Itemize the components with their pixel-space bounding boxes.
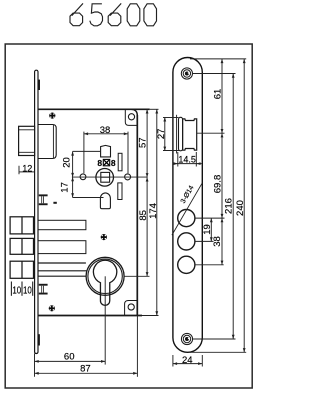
svg-text:10: 10 xyxy=(23,285,32,296)
svg-text:69.8: 69.8 xyxy=(212,175,223,194)
svg-text:27: 27 xyxy=(156,129,167,140)
svg-text:20: 20 xyxy=(61,157,72,168)
svg-text:24: 24 xyxy=(182,355,193,366)
svg-text:19: 19 xyxy=(202,224,213,235)
svg-text:10: 10 xyxy=(12,285,21,296)
svg-text:38: 38 xyxy=(100,125,111,136)
svg-text:38: 38 xyxy=(212,236,223,247)
svg-text:8: 8 xyxy=(111,158,116,168)
svg-text:12: 12 xyxy=(22,163,32,174)
svg-text:174: 174 xyxy=(148,203,159,219)
svg-text:8: 8 xyxy=(97,158,102,168)
svg-text:240: 240 xyxy=(235,200,246,216)
svg-text:14.5: 14.5 xyxy=(178,154,196,164)
svg-text:57: 57 xyxy=(137,137,148,148)
svg-text:61: 61 xyxy=(212,89,223,100)
svg-text:216: 216 xyxy=(224,198,235,214)
svg-text:60: 60 xyxy=(64,351,75,362)
svg-text:87: 87 xyxy=(80,364,91,375)
svg-text:17: 17 xyxy=(60,182,71,193)
